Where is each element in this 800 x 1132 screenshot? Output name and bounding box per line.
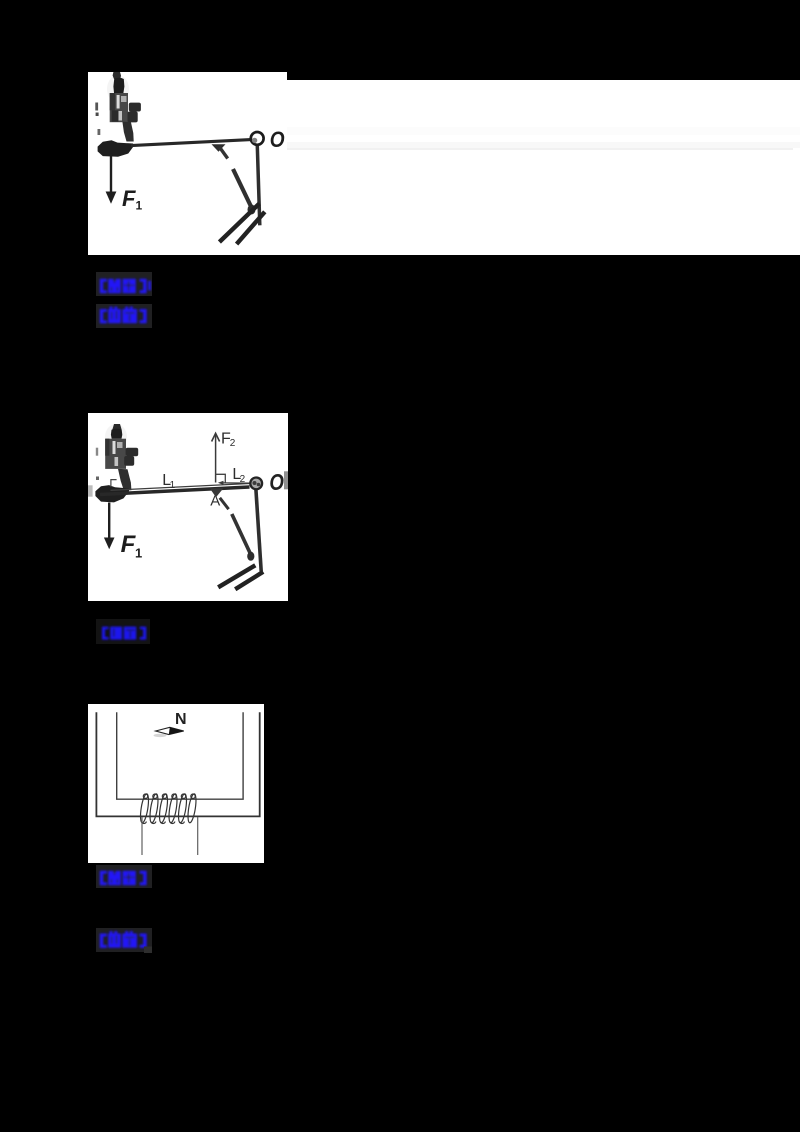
F1 arrow	[110, 154, 112, 197]
svg-text:F: F	[122, 186, 136, 211]
thigh	[220, 498, 229, 509]
knee	[247, 552, 254, 561]
support	[257, 146, 260, 226]
svg-text:A: A	[210, 493, 220, 510]
needle shadow	[154, 734, 167, 737]
knee	[248, 205, 256, 215]
right ghost block	[284, 471, 288, 489]
faint scan line	[287, 148, 793, 151]
F1 arrow	[108, 503, 110, 542]
machine body	[95, 424, 138, 502]
L2 arrow	[222, 482, 251, 484]
machine body	[98, 72, 141, 157]
machine halo	[105, 424, 127, 450]
svg-text:1: 1	[135, 546, 142, 561]
coil	[139, 793, 198, 823]
outer core	[96, 712, 259, 816]
pivot circle	[250, 478, 262, 490]
joint triangle	[210, 488, 224, 497]
svg-text:O: O	[270, 127, 285, 152]
support	[256, 489, 261, 571]
right-angle at pedal	[111, 480, 117, 487]
leads	[141, 817, 143, 855]
F2 arrow	[215, 435, 217, 483]
right angle square	[216, 474, 226, 482]
lever	[131, 140, 251, 146]
svg-text:2: 2	[240, 474, 246, 485]
thigh	[219, 147, 227, 159]
thin lever line	[111, 483, 253, 490]
inner core	[117, 712, 243, 799]
left-edge gray block	[88, 485, 93, 496]
faint scan band upper	[287, 127, 800, 135]
faint scan band lower	[287, 142, 800, 148]
machine halo	[107, 75, 129, 103]
thick lever	[100, 487, 250, 495]
joint triangle	[212, 144, 226, 151]
pivot circle O	[251, 132, 264, 145]
feet	[218, 565, 255, 587]
svg-text:1: 1	[136, 198, 143, 212]
svg-text:2: 2	[230, 438, 236, 449]
feet	[219, 204, 259, 243]
svg-text:N: N	[175, 711, 187, 728]
compass needle	[156, 727, 184, 734]
svg-text:1: 1	[170, 480, 176, 491]
svg-text:O: O	[269, 469, 284, 495]
left-edge scan marks	[95, 103, 98, 111]
